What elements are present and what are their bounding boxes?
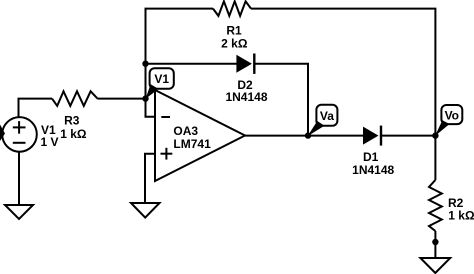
ground: under op-amp bbox=[131, 203, 160, 218]
wire: non-inverting input to ground bbox=[145, 154, 155, 203]
wire: D2 branch right, down to Va node bbox=[254, 64, 308, 136]
wire: V1 bottom to ground bbox=[18, 152, 20, 205]
svg-text:R3: R3 bbox=[64, 113, 80, 127]
svg-text:1N4148: 1N4148 bbox=[225, 90, 267, 104]
wire: R2 to ground bbox=[434, 231, 436, 258]
node label V1 bbox=[146, 68, 174, 99]
node: Va junction bbox=[305, 132, 311, 138]
svg-text:OA3: OA3 bbox=[173, 124, 198, 138]
wire: D1 to Vo node bbox=[381, 135, 436, 137]
op-amp OA3 LM741 bbox=[155, 90, 245, 181]
node label Va bbox=[308, 105, 338, 136]
source V1 bbox=[2, 117, 58, 152]
svg-text:2 kΩ: 2 kΩ bbox=[221, 37, 248, 51]
resistor R1 bbox=[213, 1, 251, 50]
ground: under source V1 bbox=[5, 205, 33, 219]
node label Vo bbox=[435, 105, 462, 136]
wire: D2 branch left bbox=[146, 63, 237, 65]
svg-text:Vo: Vo bbox=[445, 108, 459, 122]
wire: to inverting input of op-amp bbox=[146, 99, 156, 117]
svg-text:LM741: LM741 bbox=[173, 137, 211, 151]
node: inverting input junction bbox=[142, 95, 148, 101]
diode D2 bbox=[225, 54, 267, 105]
ground: under R2 bbox=[420, 258, 450, 273]
wire: top run from R1 to right corner, down to Vo node bbox=[251, 9, 435, 136]
wire: feedback left vertical and top run to R1 bbox=[146, 9, 214, 99]
resistor R3 bbox=[52, 91, 98, 141]
resistor R2 bbox=[429, 180, 474, 231]
wire: Vo node down to R2 bbox=[434, 136, 436, 180]
wire: R3 to input node bbox=[98, 98, 146, 100]
node: junction of feedback and D2 branch bbox=[142, 61, 148, 67]
svg-text:Va: Va bbox=[320, 109, 334, 123]
svg-text:R1: R1 bbox=[226, 23, 242, 37]
svg-text:1 kΩ: 1 kΩ bbox=[448, 209, 474, 223]
svg-text:1 V: 1 V bbox=[41, 135, 59, 149]
wire: V1 top to R3 bbox=[19, 99, 53, 118]
wedge: clipped label pointer at left edge bbox=[0, 125, 5, 142]
wire: op-amp output to D1 bbox=[245, 135, 363, 137]
svg-text:V1: V1 bbox=[154, 72, 169, 86]
node: Vo junction bbox=[432, 132, 438, 138]
node: junction dot above ground bbox=[432, 239, 438, 245]
svg-text:1 kΩ: 1 kΩ bbox=[60, 127, 87, 141]
svg-text:1N4148: 1N4148 bbox=[352, 163, 394, 177]
diode D1 bbox=[352, 126, 394, 177]
